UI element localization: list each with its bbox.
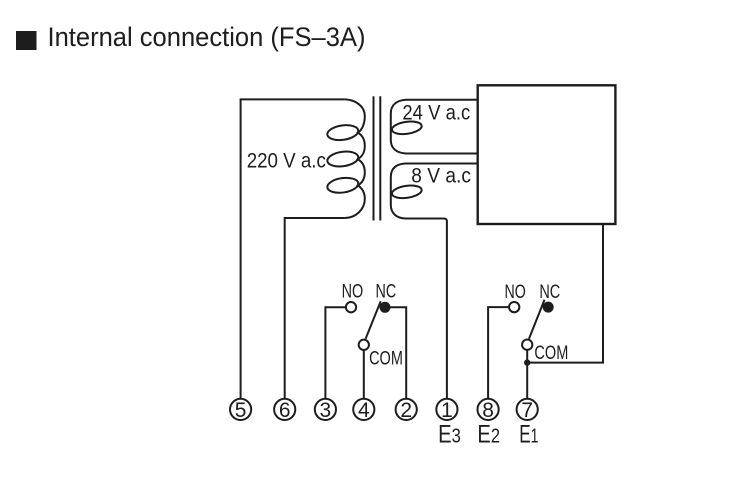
svg-text:NO: NO <box>504 282 525 303</box>
svg-text:Internal connection (FS–3A): Internal connection (FS–3A) <box>48 22 366 52</box>
terminal 6 <box>274 399 295 422</box>
svg-text:3: 3 <box>320 399 332 422</box>
control box U1 <box>478 85 616 224</box>
svg-text:NC: NC <box>376 282 397 303</box>
relay contact K2: NO lead to terminal 8 <box>488 307 509 399</box>
terminal 2 <box>396 399 417 422</box>
svg-text:4: 4 <box>358 399 370 422</box>
relay K2 COM lead through junction to terminal 7 <box>526 350 528 399</box>
relay K1 COM lead to terminal 4 <box>363 350 365 399</box>
transformer T1 primary winding right outline <box>345 99 365 218</box>
svg-text:220 V a.c: 220 V a.c <box>247 150 326 173</box>
svg-text:E1: E1 <box>519 421 538 449</box>
wire terminal5 to primary top <box>241 99 345 399</box>
wire box bottom to relay2 COM junction <box>527 224 603 363</box>
relay K1 COM circle <box>359 340 369 350</box>
svg-text:5: 5 <box>235 399 247 422</box>
svg-text:8 V a.c: 8 V a.c <box>411 165 471 188</box>
svg-text:E2: E2 <box>477 421 500 449</box>
svg-text:24 V a.c: 24 V a.c <box>402 102 470 125</box>
relay K1 NC lead to terminal 2 <box>391 307 407 399</box>
svg-text:COM: COM <box>369 348 403 369</box>
transformer core line right <box>379 96 381 220</box>
svg-text:8: 8 <box>482 399 494 422</box>
relay contact K1: NO lead to terminal 3 <box>325 307 345 399</box>
svg-text:E3: E3 <box>438 421 461 449</box>
terminal 1 <box>436 399 457 422</box>
relay K1 NC contact dot <box>380 302 391 313</box>
svg-text:1: 1 <box>441 399 453 422</box>
terminal 8 <box>478 399 499 422</box>
svg-text:NO: NO <box>342 282 364 303</box>
terminal 3 <box>315 399 336 422</box>
svg-text:7: 7 <box>521 399 533 422</box>
relay K2 switch arm COM-NC <box>529 300 545 339</box>
primary loop 3 <box>326 176 359 195</box>
secondary 24V loop <box>391 120 422 136</box>
transformer core line left <box>373 96 375 220</box>
svg-text:6: 6 <box>279 399 291 422</box>
primary loop 2 <box>326 150 359 169</box>
title bullet square <box>16 31 37 50</box>
relay K2 NC contact dot <box>543 302 554 313</box>
svg-text:COM: COM <box>534 343 568 364</box>
primary loop 1 <box>326 123 359 142</box>
secondary 24V winding outline <box>391 100 478 154</box>
wire primary bottom to terminal 6 <box>285 218 345 399</box>
svg-text:2: 2 <box>400 399 412 422</box>
relay K1 NO contact circle <box>346 302 356 312</box>
junction node <box>524 359 530 365</box>
terminal 4 <box>353 399 374 422</box>
svg-text:NC: NC <box>539 282 560 303</box>
secondary 8V loop <box>391 184 422 200</box>
relay K2 COM circle <box>522 340 532 350</box>
terminal 7 <box>517 399 538 422</box>
relay K2 NO contact circle <box>509 302 519 312</box>
relay K1 switch arm COM-NC <box>366 301 381 339</box>
terminal 5 <box>230 399 251 422</box>
secondary 8V winding outline, lead down to terminal 1 <box>391 164 478 400</box>
